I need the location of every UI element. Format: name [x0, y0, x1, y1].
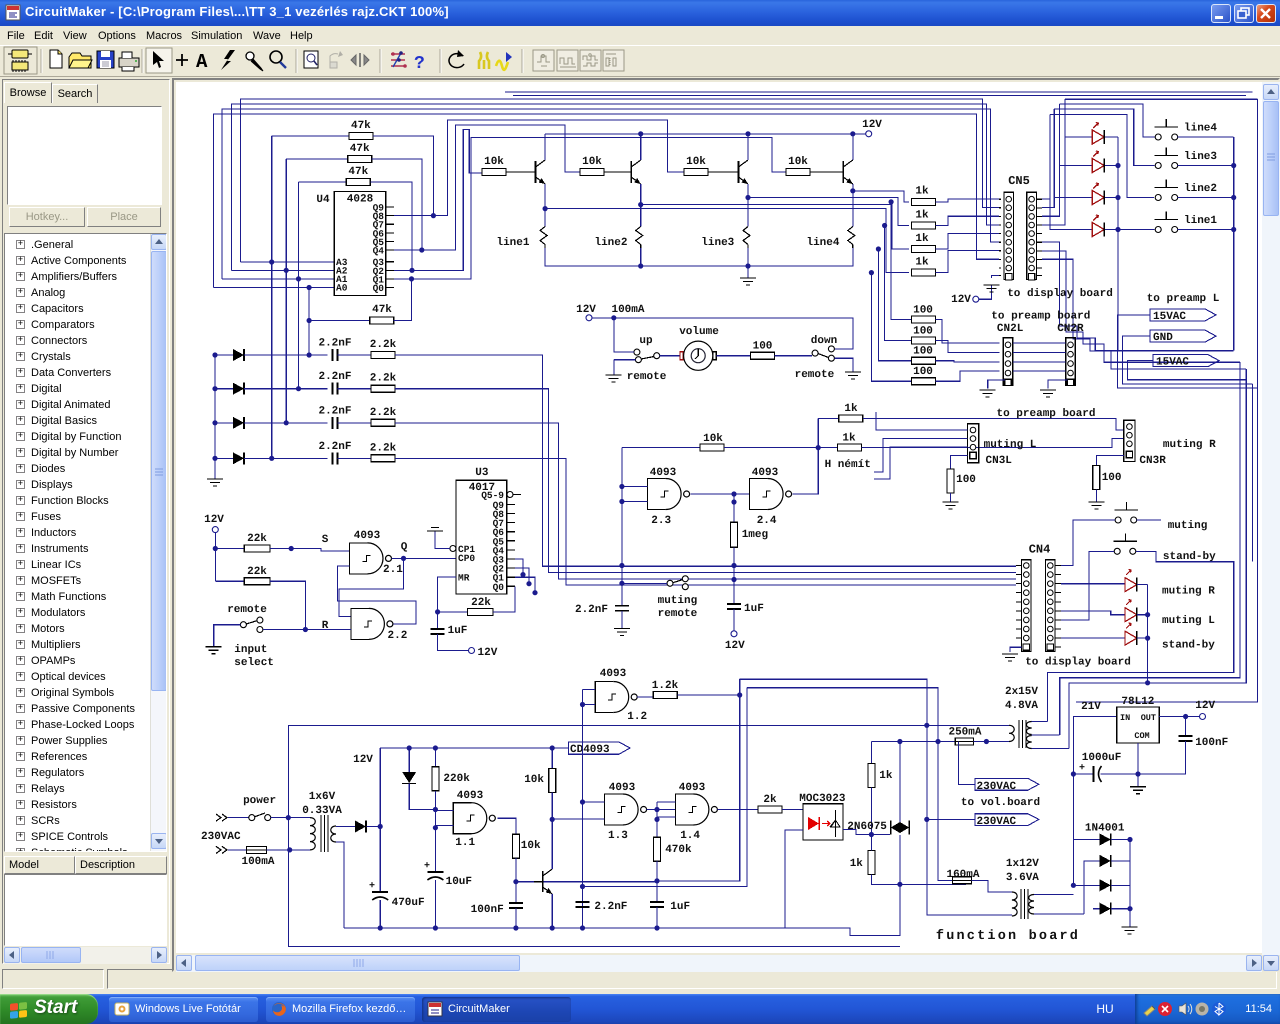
wire emitter to 1k [748, 198, 909, 226]
netflag 230VAC top [959, 742, 1039, 794]
triac 2N6075 [847, 739, 909, 835]
label to preamp L [1147, 293, 1220, 305]
wire emitter to 1k [853, 191, 909, 202]
wire CN5 pin stubs [999, 258, 1042, 260]
label to preamp board cn2 [991, 311, 1090, 323]
svg-text:remote: remote [795, 369, 835, 381]
connector CN5 label [1008, 174, 1030, 188]
wire volume top rail [592, 315, 853, 349]
svg-text:10k: 10k [524, 774, 544, 786]
svg-text:Q0: Q0 [493, 582, 505, 593]
svg-text:1k: 1k [915, 186, 929, 198]
gate 4093 1.4 [675, 782, 717, 842]
wire CN5 pin stubs [999, 267, 1042, 269]
transistor Q2 line2 [631, 134, 641, 205]
svg-text:GND: GND [1153, 332, 1173, 344]
capacitor 1uF mute [727, 603, 764, 615]
svg-text:1.1: 1.1 [455, 837, 475, 849]
resistor 1k hnemit2 [837, 433, 1123, 452]
svg-text:line3: line3 [701, 237, 734, 249]
svg-text:100: 100 [956, 474, 976, 486]
label 230VAC [201, 831, 241, 843]
wire 470uF column [379, 827, 381, 893]
svg-text:12V: 12V [862, 119, 882, 131]
svg-text:0.33VA: 0.33VA [302, 805, 342, 817]
label 1N4001 [1085, 823, 1125, 835]
pushbutton line2 [1155, 180, 1234, 201]
svg-text:15VAC: 15VAC [1153, 311, 1186, 323]
svg-text:+: + [424, 861, 430, 872]
wire Q to CP0 [392, 556, 457, 561]
gate 4093 1.1 [435, 790, 495, 849]
fuse 160mA [946, 869, 979, 884]
svg-text:line2: line2 [1184, 183, 1217, 195]
resistor 1meg [731, 494, 769, 604]
svg-text:to preamp board: to preamp board [996, 408, 1095, 420]
resistor 1k cn5-1 [911, 186, 999, 206]
wire Q8 run [394, 120, 684, 216]
svg-text:10uF: 10uF [446, 876, 472, 888]
label to display board CN5 [1007, 288, 1113, 300]
regulator 78L12 [1117, 696, 1160, 743]
resistor 2.2k row2 [338, 373, 397, 393]
svg-text:up: up [639, 335, 653, 347]
resistor 1.2k [637, 680, 742, 699]
left panel [0, 77, 172, 966]
resistor 2.2k row1 [338, 339, 397, 359]
connector CN5 right strip [1027, 192, 1037, 280]
ground CN5 [984, 276, 1000, 292]
label 1x12V [1006, 858, 1039, 884]
svg-text:power: power [243, 795, 276, 807]
svg-text:230VAC: 230VAC [977, 781, 1017, 793]
diode D3 [215, 417, 328, 429]
svg-text:22k: 22k [247, 566, 267, 578]
svg-text:21V: 21V [1081, 701, 1101, 713]
wire MR to 22k [435, 577, 456, 615]
svg-text:2k: 2k [763, 794, 777, 806]
resistor 100 cn2-2 [911, 326, 999, 353]
svg-text:stand-by: stand-by [1162, 640, 1215, 652]
wire display bus lower steps [1042, 242, 1246, 369]
resistor 100 cn3r [1093, 456, 1124, 502]
wire MOC bottom [785, 830, 803, 928]
pushbutton line1 [1155, 212, 1234, 233]
resistor 100 cn2-3 [911, 346, 999, 365]
connector CN2L [997, 323, 1024, 386]
svg-text:1000uF: 1000uF [1082, 752, 1122, 764]
wire cn2 rows [1013, 343, 1066, 371]
svg-text:100: 100 [753, 341, 773, 353]
svg-text:remote: remote [658, 608, 698, 620]
wire LED cathode rail [1095, 137, 1120, 351]
svg-text:muting: muting [658, 595, 698, 607]
svg-text:1uF: 1uF [744, 603, 764, 615]
wire CN5-LED bus [1042, 99, 1258, 229]
LED line3 indicator [1092, 151, 1118, 173]
wire function board outline [288, 723, 1009, 947]
svg-text:1x6V: 1x6V [309, 791, 336, 803]
wire 47k1 to Q8 [373, 136, 436, 218]
svg-text:10k: 10k [582, 156, 602, 168]
wire R row [263, 627, 351, 632]
resistor 1k cn5-3 [911, 233, 999, 253]
svg-text:to display board: to display board [1025, 657, 1131, 669]
terminal 12V mute [725, 609, 745, 652]
wire row to CN4 [395, 389, 1016, 573]
wire emitter node line4 [850, 188, 855, 226]
resistor 10k base line2 [580, 156, 631, 176]
svg-text:line1: line1 [496, 237, 529, 249]
wire stand-by sw [1061, 551, 1234, 672]
transistor power [534, 819, 555, 930]
svg-text:to preamp board: to preamp board [991, 311, 1090, 323]
capacitor 100nF [471, 882, 523, 931]
gate 4093 1.3 [552, 782, 646, 842]
capacitor 470uF [369, 881, 425, 931]
status bar [0, 966, 1280, 994]
resistor 1k cn5-4 [911, 251, 999, 277]
pushbutton line3 [1155, 148, 1234, 169]
svg-text:220k: 220k [443, 773, 470, 785]
svg-text:volume: volume [679, 326, 719, 338]
svg-text:U4: U4 [316, 194, 330, 206]
LED line2 indicator [1092, 183, 1118, 205]
svg-text:12V: 12V [1195, 700, 1215, 712]
wire U3 Q rows right [515, 559, 538, 595]
svg-text:10k: 10k [484, 156, 504, 168]
resistor 47k below U4 [309, 276, 414, 324]
svg-text:100nF: 100nF [471, 904, 504, 916]
ground CN2R [1040, 380, 1067, 397]
wire input diode rail [212, 352, 217, 479]
wire CN5 pin stubs [999, 215, 1042, 217]
svg-text:4093: 4093 [752, 467, 779, 479]
svg-text:2.2nF: 2.2nF [318, 338, 351, 350]
ground volume right [845, 372, 861, 379]
svg-text:2.2nF: 2.2nF [318, 405, 351, 417]
label muting remote [658, 595, 698, 620]
diode D1 [215, 349, 328, 361]
pushbutton stand-by [1114, 533, 1216, 563]
netflag GND [1122, 330, 1252, 384]
svg-text:CD4093: CD4093 [570, 744, 610, 756]
IC U4 4028 [316, 192, 394, 296]
svg-text:2.1: 2.1 [383, 564, 403, 576]
svg-text:A: A [196, 51, 208, 73]
svg-text:12V: 12V [353, 754, 373, 766]
svg-text:47k: 47k [372, 304, 392, 316]
svg-text:22k: 22k [247, 533, 267, 545]
svg-text:MR: MR [458, 573, 470, 584]
svg-text:1uF: 1uF [448, 625, 468, 637]
LED muting L [1061, 600, 1215, 627]
ground 100 cn3r [1088, 502, 1104, 509]
svg-text:CN5: CN5 [1008, 174, 1030, 188]
svg-text:4093: 4093 [650, 467, 677, 479]
svg-text:COM: COM [1134, 731, 1149, 741]
wire LED chain [1145, 585, 1150, 686]
svg-text:2.2k: 2.2k [370, 407, 397, 419]
svg-text:?: ? [414, 54, 425, 74]
taskbar [0, 994, 1280, 1024]
resistor 100 cn2-1 [911, 304, 999, 343]
transformer 2x15V [1005, 686, 1069, 749]
svg-text:4093: 4093 [600, 668, 627, 680]
svg-text:12V: 12V [576, 304, 596, 316]
wire Q2 run [394, 129, 482, 270]
svg-text:2.2: 2.2 [388, 630, 408, 642]
capacitor 1uF osc [650, 861, 690, 930]
wire CN4 stubs [1016, 566, 1061, 648]
ground input select [206, 644, 274, 669]
wire S row [270, 534, 350, 551]
capacitor 2.2nF osc [576, 901, 628, 913]
LED stand-by [1061, 623, 1215, 652]
svg-text:1meg: 1meg [742, 529, 768, 541]
svg-text:12V: 12V [478, 647, 498, 659]
svg-text:line4: line4 [806, 237, 839, 249]
wire Q1 run [394, 138, 786, 279]
resistor 1k hnemit1 [818, 403, 1124, 448]
svg-text:H némít: H némít [825, 459, 871, 471]
resistor 470k [654, 837, 693, 861]
wire cn3l feeds [874, 412, 967, 479]
capacitor 1000uF [1073, 752, 1140, 782]
ground CN2L [980, 380, 1005, 397]
resistor 2.2k row3 [338, 407, 397, 427]
svg-text:47k: 47k [351, 120, 371, 132]
label power [243, 795, 276, 807]
svg-text:2.2nF: 2.2nF [594, 901, 627, 913]
svg-text:Q4: Q4 [373, 246, 385, 257]
wire line to 100 [876, 246, 912, 360]
wire emitter node line1 [543, 206, 548, 227]
svg-text:to vol.board: to vol.board [961, 797, 1040, 809]
ground CP1 [427, 528, 450, 549]
wire mute column [619, 448, 624, 606]
wire up gnd [613, 360, 615, 375]
jack line2 [594, 227, 642, 250]
wire row to CN4 [395, 355, 1016, 566]
transistor Q3 line3 [739, 134, 749, 198]
resistor 10k osc1 [512, 834, 541, 884]
wire latch feedback 1 [339, 558, 404, 616]
capacitor 10uF [424, 828, 472, 931]
wire row to CN4 [395, 423, 1016, 579]
wire CN5 pin stubs [999, 224, 1042, 226]
wire 1.3 out [647, 807, 676, 812]
wire CN5 pin stubs [999, 233, 1042, 235]
wire A-input rows [214, 259, 334, 290]
wire 47k2 to Q4 [372, 159, 425, 253]
resistor 2k [717, 794, 803, 813]
jack line3 [701, 227, 750, 250]
svg-text:down: down [811, 335, 837, 347]
gate 4093 2.3 [622, 467, 690, 527]
connector CN4 label [1029, 542, 1051, 556]
connector CN5 left strip [1004, 192, 1014, 280]
svg-text:remote: remote [227, 604, 267, 616]
svg-text:1x12V: 1x12V [1006, 858, 1039, 870]
ground 2.2nF [614, 629, 630, 636]
svg-text:22k: 22k [471, 597, 491, 609]
wire 12V collector rail [545, 131, 866, 136]
wire 47k pull-up columns [269, 136, 312, 461]
resistor 100 volume [717, 341, 812, 360]
svg-text:100: 100 [913, 304, 933, 316]
transistor Q4 line4 [843, 134, 853, 191]
svg-text:100: 100 [1102, 472, 1122, 484]
connector CN3L [967, 424, 1036, 467]
svg-text:230VAC: 230VAC [977, 816, 1017, 828]
connector CN4 left [1022, 560, 1032, 652]
wire latch feedback 2 [338, 566, 416, 624]
wire CN5 pin stubs [999, 198, 1042, 200]
capacitor 100nF psu [1138, 717, 1228, 775]
svg-text:2.2k: 2.2k [370, 339, 397, 351]
terminal 12V CN5 [951, 285, 991, 306]
jack line4 [806, 227, 854, 250]
svg-text:+: + [1079, 763, 1085, 774]
wire emitter node line3 [745, 195, 750, 227]
svg-text:muting R: muting R [1163, 439, 1216, 451]
svg-text:1k: 1k [915, 256, 929, 268]
capacitor 2.2nF row4 [318, 441, 351, 465]
svg-text:4093: 4093 [354, 530, 381, 542]
transformer 1x12V [971, 880, 1084, 919]
label function board [936, 929, 1080, 944]
svg-text:CP0: CP0 [458, 553, 475, 564]
toolbar [0, 45, 1280, 77]
label to vol.board [961, 797, 1040, 809]
svg-text:10k: 10k [521, 840, 541, 852]
svg-text:2.2nF: 2.2nF [318, 441, 351, 453]
svg-text:muting L: muting L [984, 439, 1037, 451]
svg-text:10k: 10k [703, 433, 723, 445]
transistor Q1 line1 [536, 134, 546, 209]
wire bus Q-feedback top lines [214, 92, 1253, 288]
svg-text:2x15V: 2x15V [1005, 686, 1038, 698]
svg-text:CN3L: CN3L [986, 455, 1013, 467]
terminal 12V rail [862, 119, 882, 137]
svg-text:U3: U3 [475, 467, 489, 479]
svg-text:4028: 4028 [347, 194, 374, 206]
resistor 1k snub2 [850, 835, 966, 887]
svg-text:A0: A0 [336, 283, 348, 294]
svg-text:100mA: 100mA [611, 304, 644, 316]
svg-text:OUT: OUT [1141, 713, 1156, 723]
svg-text:to preamp L: to preamp L [1147, 293, 1220, 305]
ground bridge [1122, 909, 1138, 934]
resistor 47k row2 [286, 143, 372, 163]
netflag 15VAC top [1118, 309, 1258, 388]
resistor 22k U3 [438, 586, 515, 615]
svg-text:muting R: muting R [1162, 586, 1215, 598]
pins U3 outputs [450, 500, 515, 593]
svg-text:line1: line1 [1184, 215, 1217, 227]
svg-text:remote: remote [627, 371, 667, 383]
svg-text:muting: muting [1168, 520, 1208, 532]
resistor 10k osc2 [524, 748, 556, 822]
ground input rail [207, 479, 223, 486]
wire 21V node [1071, 701, 1117, 840]
wire row to CN4 [395, 458, 1016, 585]
LED line4 indicator [1092, 123, 1118, 145]
wire 1.1 out [498, 818, 516, 834]
gate 4093 2.1 [350, 530, 408, 576]
capacitor 2.2nF mute [575, 604, 629, 629]
capacitor 2.2nF row3 [318, 405, 351, 429]
connector CN4 right [1046, 560, 1056, 652]
capacitor 2.2nF row1 [318, 338, 351, 362]
svg-text:muting L: muting L [1162, 615, 1215, 627]
label to preamp board cn3 [996, 408, 1095, 420]
ground 100 cn3l [943, 502, 959, 509]
netflag 230VAC bottom [927, 814, 1039, 828]
svg-text:100nF: 100nF [1195, 737, 1228, 749]
svg-text:function board: function board [936, 929, 1080, 944]
transformer 1x6V [302, 791, 355, 928]
svg-text:470k: 470k [665, 844, 692, 856]
svg-text:100: 100 [913, 346, 933, 358]
svg-text:47k: 47k [348, 166, 368, 178]
wire line to 100 [889, 199, 912, 319]
resistor 1k snub1 [868, 742, 893, 838]
svg-text:12V: 12V [725, 640, 745, 652]
netflag 15VAC bottom [1128, 355, 1247, 380]
switch remote input [214, 604, 268, 647]
svg-text:78L12: 78L12 [1121, 696, 1154, 708]
svg-text:1k: 1k [850, 858, 864, 870]
svg-text:1k: 1k [844, 403, 858, 415]
LED muting R [1061, 583, 1125, 585]
svg-text:4093: 4093 [457, 790, 484, 802]
resistor 22k R [215, 566, 305, 630]
svg-text:CN3R: CN3R [1139, 455, 1166, 467]
ground volume left [605, 371, 666, 383]
wire muting sw [1061, 520, 1161, 566]
svg-text:10k: 10k [788, 156, 808, 168]
resistor 10k mute [622, 433, 838, 451]
wire CN5 pin stubs [999, 241, 1042, 243]
jack line1 [496, 227, 547, 250]
svg-text:1k: 1k [915, 233, 929, 245]
resistor 2.2k row4 [338, 442, 397, 462]
connector CN2R [1057, 323, 1084, 386]
ground CN4 [1002, 647, 1022, 661]
terminal 12V out [1195, 700, 1215, 720]
switch power [249, 813, 310, 821]
wire emitter node line2 [638, 202, 643, 227]
svg-text:4.8VA: 4.8VA [1005, 700, 1038, 712]
svg-text:100: 100 [913, 366, 933, 378]
switch volume up [614, 318, 660, 363]
pushbutton muting [1115, 502, 1208, 532]
resistor 10k base line3 [684, 156, 739, 176]
resistor 10k base line4 [786, 156, 843, 176]
label 12V psu [353, 754, 373, 766]
svg-text:3.6VA: 3.6VA [1006, 872, 1039, 884]
resistor 47k row1 [272, 120, 373, 140]
svg-text:S: S [322, 534, 329, 546]
terminal 12V latch [204, 514, 224, 533]
svg-text:1.4: 1.4 [680, 830, 700, 842]
diode bridge 1N4001 x4 [1071, 834, 1133, 915]
resistor 1k cn5-2 [911, 209, 999, 229]
svg-text:select: select [234, 657, 274, 669]
resistor 22k S [213, 533, 270, 582]
